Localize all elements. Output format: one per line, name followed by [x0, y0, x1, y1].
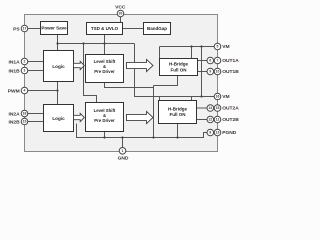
pin PWM 4 — [21, 87, 28, 94]
wire GND pin — [122, 138, 124, 151]
svg-text:VM: VM — [222, 44, 229, 50]
svg-text:20: 20 — [119, 12, 123, 16]
pin OUT2B 12 — [207, 116, 214, 123]
wire Logic1 to Logic2 vertical — [57, 82, 59, 105]
big arrow Level Shift2 to H-Bridge2 — [127, 111, 154, 123]
wire TSD down through bus to Level Shift 1 — [104, 35, 106, 55]
svg-text:TSD & UVLO: TSD & UVLO — [91, 26, 119, 31]
pin PGND 8 — [207, 129, 214, 136]
svg-text:BandGap: BandGap — [147, 26, 167, 31]
svg-text:IN2B: IN2B — [9, 119, 21, 125]
pin OUT1B 10 — [214, 68, 221, 75]
svg-text:Logic: Logic — [52, 64, 65, 69]
wire Level Shift1 return — [105, 83, 154, 88]
junction bus / Level Shift 2 branch — [82, 42, 84, 44]
wire internal supply bus — [58, 43, 135, 45]
wire VM1 drop to H-Bridge1 left — [159, 47, 161, 59]
wire bus drop to Level Shift 2 — [84, 44, 97, 103]
wire TSD to BandGap — [123, 28, 144, 30]
pin IN1B 3 — [21, 67, 28, 74]
svg-text:IN2A: IN2A — [9, 111, 21, 117]
svg-text:Power Save: Power Save — [41, 26, 67, 31]
pin GND 1 — [119, 148, 126, 155]
svg-text:2: 2 — [24, 60, 26, 64]
wire IN2B — [25, 121, 44, 123]
svg-text:H-Bridge: H-Bridge — [169, 62, 188, 67]
pin OUT2A 15 — [214, 105, 221, 112]
block Level Shift & Pre Driver 2 — [86, 103, 124, 132]
small arrow Logic1 to Level Shift1 — [74, 61, 85, 69]
IC outer boundary box — [25, 15, 218, 152]
svg-text:14: 14 — [208, 106, 212, 110]
svg-text:4: 4 — [24, 89, 26, 93]
svg-text:OUT1A: OUT1A — [222, 58, 239, 64]
block H-Bridge Full ON 1 — [160, 59, 198, 76]
svg-text:9: 9 — [209, 70, 211, 74]
wire IN1B — [25, 70, 44, 72]
block H-Bridge Full ON 2 — [159, 101, 197, 124]
junction GND bus / Level Shift 2 — [103, 136, 105, 138]
junction bus / TSD branch — [103, 42, 105, 44]
wire VM2 drop to H-Bridge2 right — [191, 97, 193, 101]
wire OUT2A — [197, 107, 218, 109]
svg-text:Logic: Logic — [52, 116, 65, 121]
pin OUT1B 9 — [207, 68, 214, 75]
pin PS 17 — [21, 25, 28, 32]
wire PWM line — [25, 90, 58, 92]
pin VCC 20 — [117, 10, 124, 17]
svg-text:10: 10 — [216, 70, 220, 74]
svg-text:18: 18 — [23, 112, 27, 116]
wire IN1A — [25, 61, 44, 63]
small arrow Logic2 to Level Shift2 — [74, 113, 85, 121]
svg-text:1: 1 — [122, 149, 124, 153]
svg-text:7: 7 — [217, 59, 219, 63]
wire OUT2B — [197, 119, 218, 121]
svg-text:12: 12 — [208, 118, 212, 122]
svg-text:PWM: PWM — [8, 88, 20, 94]
block Power Save — [41, 22, 68, 35]
svg-text:6: 6 — [209, 59, 211, 63]
wire Level Shift2 to GND bus — [104, 132, 106, 138]
junction VM2 line / VM1 drop — [200, 95, 202, 97]
wire OUT1B — [198, 71, 218, 73]
junction bus / Power Save branch — [56, 42, 58, 44]
svg-text:GND: GND — [118, 155, 129, 161]
svg-text:5: 5 — [217, 45, 219, 49]
svg-text:13: 13 — [216, 131, 220, 135]
svg-text:Pre Driver: Pre Driver — [94, 118, 115, 123]
big arrow Level Shift1 to H-Bridge1 — [127, 59, 154, 71]
wire GND bus — [77, 124, 218, 138]
wire IN2A — [25, 113, 44, 115]
junction GND bus / GND pin — [121, 136, 123, 138]
pin OUT1A 7 — [214, 57, 221, 64]
pin VM 16 — [214, 93, 221, 100]
svg-text:3: 3 — [24, 69, 26, 73]
svg-text:OUT2B: OUT2B — [222, 117, 239, 123]
block Level Shift & Pre Driver 1 — [86, 55, 124, 83]
svg-text:19: 19 — [23, 120, 27, 124]
svg-text:8: 8 — [209, 131, 211, 135]
svg-text:VM: VM — [222, 94, 229, 100]
svg-text:Full ON: Full ON — [170, 112, 186, 117]
svg-text:VCC: VCC — [115, 5, 126, 11]
pin PGND 13 — [214, 129, 221, 136]
junction VM1 line / VM2 drop — [200, 45, 202, 47]
wire H-Bridge2 to GND bus — [177, 124, 179, 138]
junction PWM line / logic vertical — [56, 89, 58, 91]
wire VCC drop to TSD — [120, 17, 122, 23]
pin OUT2B 11 — [214, 116, 221, 123]
wire PS to Power Save — [25, 28, 41, 30]
pin IN1A 2 — [21, 58, 28, 65]
pin OUT1A 6 — [207, 57, 214, 64]
svg-text:16: 16 — [216, 95, 220, 99]
junction GND bus / channel-1 return — [152, 136, 154, 138]
pin IN2A 18 — [21, 110, 28, 117]
junction VM1 line / H-Bridge1 drop — [190, 45, 192, 47]
pin OUT2A 14 — [207, 105, 214, 112]
svg-text:17: 17 — [23, 27, 27, 31]
block TSD & UVLO — [87, 23, 123, 35]
wire channel-1 return vertical — [153, 86, 155, 138]
pin IN2B 19 — [21, 118, 28, 125]
block Logic 1 — [44, 51, 74, 82]
wire VM2 drop to H-Bridge2 left — [159, 97, 161, 101]
svg-text:11: 11 — [216, 118, 220, 122]
block BandGap — [144, 23, 171, 35]
wire OUT1A — [198, 60, 218, 62]
wire Power Save down through bus to Logic 1 — [57, 35, 59, 51]
svg-text:15: 15 — [216, 106, 220, 110]
svg-text:H-Bridge: H-Bridge — [168, 106, 187, 111]
svg-text:PS: PS — [13, 26, 20, 32]
wire VM1 line — [160, 46, 218, 48]
wire VM1 drop to H-Bridge1 right — [191, 47, 193, 59]
pin VM 5 — [214, 43, 221, 50]
wire H-Bridge1 return — [154, 76, 178, 86]
wire bus right down to VM2 line — [135, 44, 218, 97]
svg-text:Pre Driver: Pre Driver — [94, 69, 115, 74]
svg-text:Full ON: Full ON — [171, 67, 187, 72]
svg-text:IN1B: IN1B — [9, 68, 21, 74]
block Logic 2 — [44, 105, 74, 132]
page background — [0, 0, 250, 173]
svg-text:OUT2A: OUT2A — [222, 106, 239, 112]
svg-text:OUT1B: OUT1B — [222, 69, 239, 75]
wire VM1 down to VM2 line — [201, 47, 203, 97]
svg-text:PGND: PGND — [222, 130, 237, 136]
junction GND bus / H-Bridge2 — [176, 136, 178, 138]
svg-text:IN1A: IN1A — [9, 59, 21, 65]
